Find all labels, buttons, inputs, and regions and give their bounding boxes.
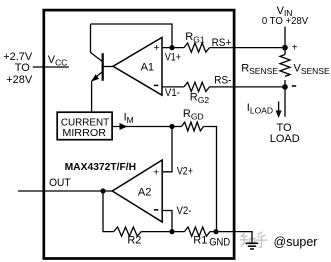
- wire OUT pin: [18, 190, 112, 192]
- op-amp A1: [113, 37, 162, 95]
- svg-text:A1: A1: [141, 61, 154, 73]
- svg-text:GND: GND: [209, 236, 230, 248]
- wire A1 inverting input to RS-: [162, 86, 184, 88]
- ground: [246, 232, 258, 249]
- svg-text:+: +: [292, 43, 298, 54]
- node RS+ / RSENSE top: [282, 45, 288, 51]
- svg-text:R1: R1: [193, 235, 207, 247]
- node label +2.7V TO +28V: [3, 51, 33, 86]
- resistor RSENSE: [280, 55, 290, 77]
- svg-text:R2: R2: [127, 235, 141, 247]
- wire transistor collector vertical: [90, 24, 92, 53]
- svg-text:RS-: RS-: [214, 75, 231, 87]
- wire V2+ input: [162, 127, 172, 172]
- svg-text:A2: A2: [138, 186, 151, 198]
- svg-text:MIRROR: MIRROR: [62, 127, 106, 139]
- resistor RGD: [172, 108, 204, 131]
- wire transistor base to A1 output: [103, 66, 113, 68]
- wire IM current mirror output: [112, 126, 172, 128]
- svg-text:V1-: V1-: [165, 87, 180, 99]
- wire V2- input: [162, 211, 172, 232]
- svg-text:TO: TO: [15, 62, 31, 74]
- wire transistor emitter to current mirror: [91, 81, 93, 113]
- wire R1 to GND: [210, 231, 253, 233]
- IC boundary box MAX4372: [44, 10, 234, 258]
- transistor Q1: [91, 53, 103, 82]
- wire RSENSE top lead: [284, 48, 286, 55]
- wire feedback to R2: [103, 191, 114, 232]
- resistor RG1: [184, 43, 209, 52]
- node GND junction: [213, 229, 218, 234]
- node OUT feedback: [100, 188, 105, 193]
- svg-text:@super: @super: [274, 235, 318, 249]
- svg-text:+: +: [154, 42, 160, 54]
- svg-text:OUT: OUT: [49, 177, 71, 189]
- svg-text:+28V: +28V: [6, 74, 33, 86]
- wire RG1 to sense resistor top: [210, 47, 286, 49]
- watermark: [240, 232, 318, 249]
- svg-text:LOAD: LOAD: [270, 133, 300, 145]
- wire R2 to V2- node: [141, 231, 184, 233]
- resistor R1: [184, 227, 210, 236]
- wire top rail from transistor collector to V1+ node: [91, 24, 173, 48]
- node V1+: [169, 45, 174, 50]
- svg-text:V2+: V2+: [177, 166, 193, 178]
- svg-text:RS+: RS+: [212, 37, 232, 49]
- node RS- / RSENSE bottom: [282, 84, 288, 90]
- svg-text:MAX4372T/F/H: MAX4372T/F/H: [65, 162, 137, 173]
- wire RSENSE bottom lead: [284, 80, 286, 87]
- wire VCC pin: [33, 66, 69, 68]
- resistor RG2: [184, 82, 209, 91]
- polarity -: [292, 85, 296, 87]
- current arrow ILOAD: [247, 102, 282, 119]
- wire VIN to RS+ node: [284, 27, 286, 48]
- resistor R2: [114, 227, 142, 236]
- wire RG2 to sense resistor bottom: [210, 86, 286, 88]
- wire RGD to GND node: [204, 127, 217, 232]
- node V2-: [169, 229, 174, 234]
- op-amp A2: [112, 160, 162, 222]
- current mirror block: [57, 112, 112, 140]
- wire to load: [284, 87, 286, 117]
- svg-text:0 TO +28V: 0 TO +28V: [262, 15, 308, 27]
- svg-text:+: +: [153, 167, 159, 179]
- wire A1 noninverting input to RS+: [162, 47, 184, 49]
- svg-text:V2-: V2-: [177, 205, 192, 217]
- node label TO LOAD: [270, 122, 300, 145]
- svg-text:V1+: V1+: [165, 52, 181, 64]
- node RGD / V2+: [169, 124, 174, 129]
- current arrow IM: [120, 123, 128, 130]
